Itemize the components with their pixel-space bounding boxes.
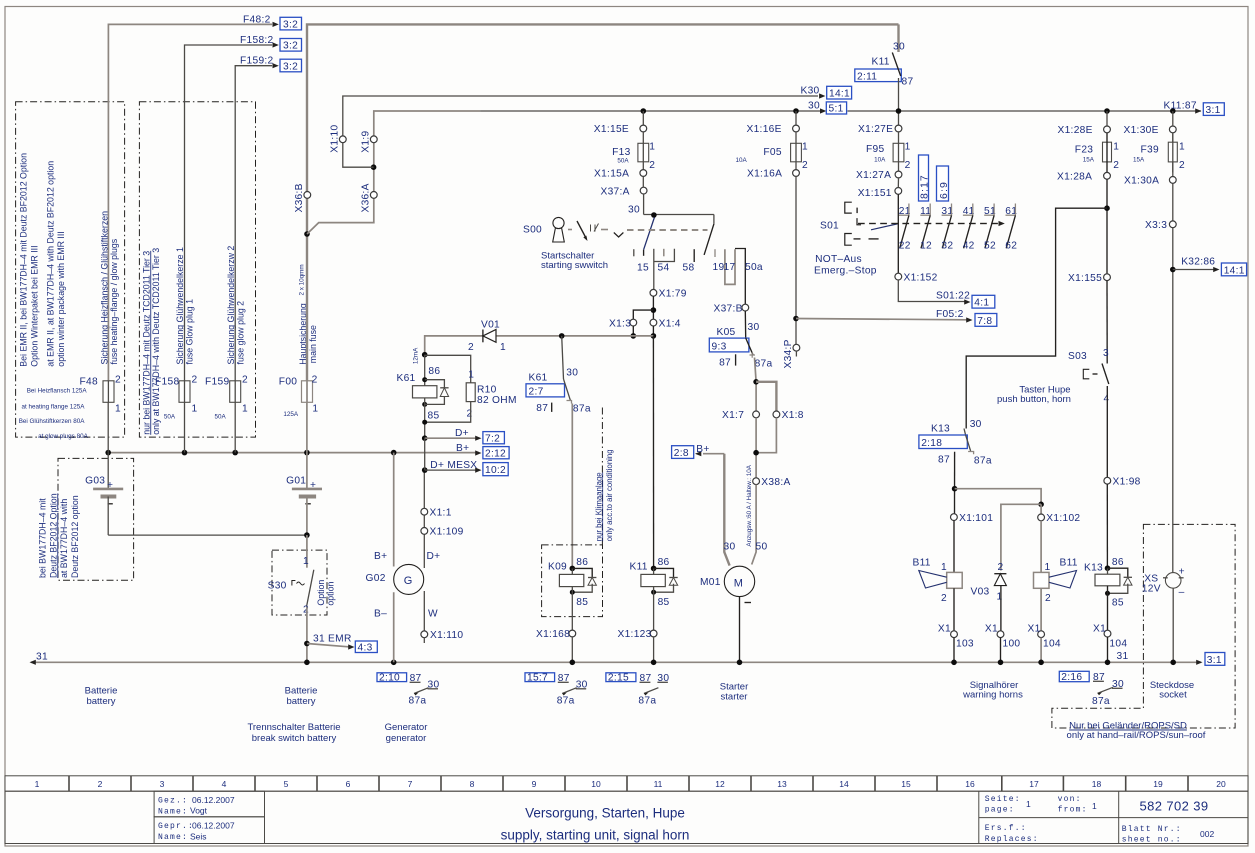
svg-text:X1:79: X1:79 bbox=[659, 289, 687, 300]
connector X1:109 bbox=[421, 527, 464, 538]
S01 contact 41-42 bbox=[963, 204, 975, 252]
label Startschalter bbox=[541, 251, 608, 271]
svg-text:10:2: 10:2 bbox=[485, 465, 506, 476]
svg-text:K30: K30 bbox=[801, 86, 820, 97]
svg-text:X1:151: X1:151 bbox=[858, 188, 892, 199]
svg-text:K13: K13 bbox=[931, 423, 950, 434]
svg-text:B11: B11 bbox=[913, 558, 931, 569]
svg-text:only at BW177DH–4 with Deutz T: only at BW177DH–4 with Deutz TCD2011 Tie… bbox=[151, 248, 161, 435]
generator G02 bbox=[366, 453, 441, 663]
wire B+ 2:8 to starter 30 bbox=[695, 444, 735, 566]
sheet ref box 7:8 bbox=[975, 314, 997, 327]
svg-text:X1:27E: X1:27E bbox=[858, 124, 893, 135]
svg-text:Ers.f.:: Ers.f.: bbox=[985, 824, 1027, 833]
connector X1:28E bbox=[1058, 125, 1111, 136]
svg-text:1: 1 bbox=[1179, 142, 1185, 153]
svg-text:page:: page: bbox=[985, 805, 1015, 814]
svg-text:11: 11 bbox=[654, 779, 663, 789]
wire K13 87 to horns bbox=[952, 452, 1044, 571]
wire D+ to 7:2 bbox=[422, 428, 482, 441]
svg-text:X1:15A: X1:15A bbox=[594, 169, 629, 180]
svg-text:5: 5 bbox=[284, 779, 289, 789]
svg-text:X1: X1 bbox=[1093, 624, 1106, 635]
emergency stop switch S01 bbox=[820, 194, 1005, 276]
relay contact K05 9:3 bbox=[709, 311, 772, 369]
svg-text:1: 1 bbox=[242, 404, 248, 415]
svg-text:13: 13 bbox=[777, 779, 787, 789]
svg-text:1: 1 bbox=[649, 142, 655, 153]
svg-text:2: 2 bbox=[467, 409, 473, 420]
option note air conditioning bbox=[594, 408, 614, 545]
connector X1:27E bbox=[858, 124, 902, 135]
svg-text:K11:87: K11:87 bbox=[1164, 101, 1197, 112]
svg-text:3:2: 3:2 bbox=[283, 41, 298, 52]
key symbol S00 bbox=[523, 217, 708, 242]
svg-text:30: 30 bbox=[566, 367, 578, 378]
svg-text:battery: battery bbox=[286, 696, 315, 707]
svg-text:M: M bbox=[734, 578, 743, 590]
svg-text:2:12: 2:12 bbox=[485, 449, 506, 460]
svg-text:3:2: 3:2 bbox=[283, 20, 298, 31]
svg-text:Name:: Name: bbox=[158, 807, 188, 816]
switch S30 break switch bbox=[268, 535, 314, 662]
svg-text:F95: F95 bbox=[866, 144, 884, 155]
svg-text:X1:30A: X1:30A bbox=[1124, 176, 1159, 187]
svg-text:87: 87 bbox=[938, 454, 950, 465]
wire K61 87a down to K09 bbox=[571, 404, 573, 569]
svg-text:1: 1 bbox=[35, 779, 40, 789]
connector X1:152 bbox=[895, 272, 938, 283]
svg-text:12mA: 12mA bbox=[413, 347, 420, 364]
option box EMR winter package bbox=[16, 102, 125, 440]
svg-text:06.12.2007: 06.12.2007 bbox=[192, 820, 235, 830]
wire S01:22 to 4:1 bbox=[898, 280, 970, 305]
svg-text:Emerg.–Stop: Emerg.–Stop bbox=[814, 266, 877, 277]
connector X1:1 bbox=[421, 507, 452, 518]
svg-text:54: 54 bbox=[658, 263, 670, 274]
svg-text:+: + bbox=[310, 480, 316, 491]
fuse F48 bbox=[80, 375, 122, 415]
svg-text:17: 17 bbox=[724, 262, 736, 273]
wire bus 30 (y=111) to 5:1 and right bbox=[480, 101, 1201, 114]
connector X1:16A bbox=[747, 169, 799, 180]
connector X1:110 bbox=[421, 630, 463, 643]
svg-text:125A: 125A bbox=[283, 411, 299, 418]
svg-text:K09: K09 bbox=[548, 562, 567, 573]
wire X1:4 down to K11 bbox=[652, 336, 654, 569]
svg-text:3:2: 3:2 bbox=[283, 61, 298, 72]
svg-text:F23: F23 bbox=[1075, 145, 1093, 156]
svg-text:Deutz BF2012 Option: Deutz BF2012 Option bbox=[48, 493, 58, 578]
wire F159:2 bbox=[235, 63, 279, 381]
connector X1:30A bbox=[1124, 176, 1176, 187]
svg-text:warning horns: warning horns bbox=[962, 689, 1023, 700]
connector X1:104 right bbox=[1093, 624, 1127, 666]
svg-text:NOT–Aus: NOT–Aus bbox=[815, 254, 862, 265]
svg-text:X1:27A: X1:27A bbox=[856, 170, 891, 181]
wire F48:2 bbox=[108, 22, 278, 381]
connector X34:P bbox=[783, 339, 800, 368]
svg-text:Versorgung, Starten, Hupe: Versorgung, Starten, Hupe bbox=[525, 806, 685, 821]
relay coil K13 bbox=[1084, 557, 1132, 630]
label NOT-Aus bbox=[814, 254, 877, 277]
svg-text:62: 62 bbox=[1005, 240, 1017, 251]
svg-text:6:9: 6:9 bbox=[938, 181, 950, 199]
svg-text:15: 15 bbox=[637, 263, 649, 274]
svg-text:87a: 87a bbox=[557, 696, 575, 707]
wire B+ to 2:12 bbox=[456, 443, 482, 456]
sheet ref box 3:2 (F158) bbox=[280, 39, 302, 52]
svg-text:3: 3 bbox=[1103, 348, 1109, 359]
svg-text:B+: B+ bbox=[374, 551, 387, 562]
svg-text:1: 1 bbox=[468, 370, 474, 381]
sheet ref box 5:1 bbox=[826, 102, 846, 115]
svg-text:fuse glow plug 2: fuse glow plug 2 bbox=[235, 301, 245, 365]
wire starter 50 path bbox=[753, 418, 776, 478]
svg-text:06.12.2007: 06.12.2007 bbox=[192, 795, 235, 805]
svg-text:–: – bbox=[1179, 587, 1185, 598]
svg-text:2: 2 bbox=[242, 375, 248, 386]
svg-text:2: 2 bbox=[802, 160, 808, 171]
svg-text:3: 3 bbox=[160, 779, 165, 789]
wire K30 (y=96) to 14:1 bbox=[801, 86, 826, 99]
svg-text:Sicherung Glühwendelkerze 1: Sicherung Glühwendelkerze 1 bbox=[175, 247, 185, 364]
svg-text:K13: K13 bbox=[1084, 563, 1103, 574]
svg-text:nur bei Klimaanlage: nur bei Klimaanlage bbox=[594, 472, 603, 541]
svg-text:15A: 15A bbox=[1133, 157, 1145, 164]
svg-text:17: 17 bbox=[1029, 779, 1039, 789]
svg-text:K32:86: K32:86 bbox=[1181, 257, 1215, 268]
diode V03 bbox=[971, 562, 1007, 631]
relay coil K11 bbox=[630, 557, 678, 630]
svg-text:option: option bbox=[326, 582, 336, 606]
svg-text:86: 86 bbox=[658, 557, 670, 568]
svg-text:19: 19 bbox=[1153, 779, 1163, 789]
svg-text:3:1: 3:1 bbox=[1206, 105, 1221, 116]
wire D+ MESX to 10:2 bbox=[422, 438, 482, 473]
svg-text:1: 1 bbox=[802, 142, 808, 153]
connector X1:151 bbox=[858, 178, 902, 199]
wire K05 87a to X1:7 X1:8 bbox=[753, 358, 776, 411]
connector X36:B bbox=[294, 183, 311, 212]
svg-text:82 OHM: 82 OHM bbox=[477, 395, 517, 406]
svg-text:Gepr.:: Gepr.: bbox=[158, 822, 194, 831]
svg-text:50: 50 bbox=[756, 542, 768, 553]
svg-text:3:1: 3:1 bbox=[1207, 655, 1222, 666]
relay contact map 15:7 bbox=[525, 673, 588, 707]
svg-text:87a: 87a bbox=[573, 404, 591, 415]
svg-text:4: 4 bbox=[1104, 394, 1110, 405]
svg-text:X1: X1 bbox=[985, 624, 998, 635]
svg-text:X1:4: X1:4 bbox=[659, 318, 681, 329]
svg-text:X1:9: X1:9 bbox=[361, 131, 372, 153]
svg-text:fuse heating–flange / glow plu: fuse heating–flange / glow plugs bbox=[109, 238, 119, 364]
svg-text:S00: S00 bbox=[523, 224, 542, 235]
option box G03 bbox=[38, 458, 134, 580]
title block bbox=[5, 791, 1248, 844]
svg-text:2: 2 bbox=[1045, 593, 1051, 604]
svg-text:K05: K05 bbox=[717, 327, 736, 338]
svg-text:85: 85 bbox=[658, 597, 670, 608]
svg-text:2:11: 2:11 bbox=[857, 71, 877, 82]
fuse F95 10A bbox=[866, 132, 911, 171]
svg-text:F00: F00 bbox=[279, 377, 297, 388]
svg-text:2: 2 bbox=[115, 375, 121, 386]
wire V01 line bbox=[425, 333, 654, 355]
fuse F23 15A bbox=[1075, 133, 1120, 173]
svg-text:F159:2: F159:2 bbox=[240, 56, 274, 67]
svg-text:X1:7: X1:7 bbox=[722, 410, 744, 421]
S01 contact 31-32 bbox=[941, 204, 953, 252]
svg-text:4:1: 4:1 bbox=[974, 298, 989, 309]
svg-text:Batterie: Batterie bbox=[285, 686, 318, 697]
svg-text:8: 8 bbox=[470, 779, 475, 789]
svg-text:1: 1 bbox=[115, 404, 121, 415]
svg-text:1: 1 bbox=[1113, 142, 1119, 153]
svg-text:2: 2 bbox=[312, 375, 318, 386]
connector X1:15E bbox=[594, 124, 647, 135]
wire bus30 to 3:1 top right bbox=[1164, 101, 1202, 114]
svg-text:32: 32 bbox=[941, 240, 953, 251]
svg-text:X3:3: X3:3 bbox=[1145, 220, 1167, 231]
svg-text:Name:: Name: bbox=[158, 833, 188, 842]
label battery mid bbox=[285, 686, 318, 708]
svg-text:002: 002 bbox=[1200, 829, 1214, 839]
svg-text:87a: 87a bbox=[974, 455, 992, 466]
connector X1:79 bbox=[650, 262, 687, 300]
svg-text:50A: 50A bbox=[617, 158, 629, 165]
connector X1:28A bbox=[1057, 172, 1110, 183]
wire K32:86 to 14:1 bbox=[1170, 133, 1220, 573]
svg-text:socket: socket bbox=[1159, 689, 1187, 700]
svg-text:87a: 87a bbox=[409, 696, 427, 707]
svg-text:X34:P: X34:P bbox=[783, 339, 794, 368]
svg-text:15: 15 bbox=[901, 779, 911, 789]
svg-text:9:3: 9:3 bbox=[712, 341, 727, 352]
sheet ref box 10:2 bbox=[483, 463, 508, 476]
svg-text:2:16: 2:16 bbox=[1061, 672, 1082, 683]
svg-text:at glow plugs 80A: at glow plugs 80A bbox=[38, 433, 89, 440]
svg-text:starting swwitch: starting swwitch bbox=[541, 260, 608, 271]
sheet ref box 4:1 bbox=[972, 295, 995, 308]
connector X38:A bbox=[746, 464, 791, 564]
svg-text:X1:16A: X1:16A bbox=[747, 169, 782, 180]
svg-text:starter: starter bbox=[721, 692, 748, 703]
push button S03 horn bbox=[1068, 281, 1110, 478]
svg-text:X36:B: X36:B bbox=[294, 183, 305, 212]
svg-text:B+: B+ bbox=[696, 444, 709, 455]
svg-text:F159: F159 bbox=[205, 377, 229, 388]
svg-text:X1: X1 bbox=[1028, 624, 1041, 635]
svg-text:F05: F05 bbox=[763, 147, 781, 158]
svg-text:8:17: 8:17 bbox=[918, 174, 930, 199]
svg-text:Trennschalter Batterie: Trennschalter Batterie bbox=[247, 722, 340, 733]
svg-text:104: 104 bbox=[1043, 639, 1061, 650]
svg-text:Bei Glühstiftkerzen 80A: Bei Glühstiftkerzen 80A bbox=[19, 418, 86, 425]
svg-text:2:15: 2:15 bbox=[608, 673, 629, 684]
svg-text:87: 87 bbox=[719, 358, 731, 369]
svg-text:30: 30 bbox=[970, 419, 982, 430]
diode V01 bbox=[468, 320, 506, 354]
svg-text:7:8: 7:8 bbox=[977, 316, 992, 327]
svg-text:6: 6 bbox=[346, 779, 351, 789]
svg-text:F05:2: F05:2 bbox=[936, 309, 964, 320]
wire 31 EMR to 4:3 bbox=[304, 634, 354, 650]
svg-text:at BW177DH–4 with: at BW177DH–4 with bbox=[59, 499, 69, 578]
connector X1:4 bbox=[650, 318, 681, 338]
svg-text:X38:A: X38:A bbox=[761, 477, 790, 488]
svg-text:5:1: 5:1 bbox=[829, 104, 844, 115]
svg-text:X1:102: X1:102 bbox=[1046, 513, 1080, 524]
svg-text:B11: B11 bbox=[1060, 558, 1078, 569]
svg-text:1: 1 bbox=[1045, 562, 1051, 573]
svg-text:X1:155: X1:155 bbox=[1068, 273, 1102, 284]
svg-text:52: 52 bbox=[984, 240, 996, 251]
wire bus30 drop to F23 bbox=[1104, 108, 1110, 126]
svg-text:X1:28E: X1:28E bbox=[1058, 125, 1093, 136]
svg-text:4:3: 4:3 bbox=[358, 643, 373, 654]
S01 contact 51-52 bbox=[984, 204, 996, 252]
svg-text:4: 4 bbox=[222, 779, 227, 789]
wire bus30 drop to F05 bbox=[793, 108, 799, 125]
svg-text:X1:123: X1:123 bbox=[618, 629, 652, 640]
wire main bus y=452.6 bbox=[105, 402, 478, 455]
relay coil K09 bbox=[548, 557, 596, 630]
option box Deutz TCD2011 bbox=[139, 102, 255, 437]
svg-text:2: 2 bbox=[941, 593, 947, 604]
svg-text:X1:168: X1:168 bbox=[536, 629, 570, 640]
svg-text:at heating flange 125A: at heating flange 125A bbox=[21, 404, 85, 411]
connector X1:8 bbox=[773, 410, 804, 421]
svg-text:1: 1 bbox=[1092, 801, 1097, 811]
sheet ref box 3:1 top bbox=[1203, 103, 1224, 116]
svg-text:X1:15E: X1:15E bbox=[594, 124, 629, 135]
svg-text:30: 30 bbox=[893, 42, 905, 53]
svg-text:14:1: 14:1 bbox=[1224, 265, 1245, 276]
svg-text:2:10: 2:10 bbox=[379, 673, 400, 684]
svg-text:2: 2 bbox=[98, 779, 103, 789]
svg-text:1: 1 bbox=[192, 404, 198, 415]
horn B11 right bbox=[1034, 558, 1078, 631]
svg-text:K61: K61 bbox=[397, 373, 416, 384]
svg-text:from:: from: bbox=[1058, 805, 1088, 814]
svg-text:D+ MESX: D+ MESX bbox=[430, 460, 477, 471]
svg-text:1: 1 bbox=[1026, 799, 1031, 809]
svg-text:12: 12 bbox=[920, 240, 932, 251]
connector X1:10 bbox=[330, 125, 347, 153]
svg-text:F48:2: F48:2 bbox=[243, 15, 271, 26]
svg-text:F158: F158 bbox=[155, 377, 179, 388]
svg-text:Bei EMR II, bei BW177DH–4 mit: Bei EMR II, bei BW177DH–4 mit Deutz BF20… bbox=[19, 153, 29, 367]
svg-text:push button, horn: push button, horn bbox=[997, 394, 1071, 405]
wire X1:3 X1:4 split bbox=[633, 296, 656, 319]
svg-text:22: 22 bbox=[899, 240, 911, 251]
svg-text:von:: von: bbox=[1058, 795, 1082, 804]
svg-text:Generator: Generator bbox=[385, 722, 428, 733]
svg-text:87a: 87a bbox=[638, 696, 656, 707]
svg-text:582 702 39: 582 702 39 bbox=[1139, 799, 1208, 814]
fuse F13 30A bbox=[612, 132, 655, 171]
svg-text:R10: R10 bbox=[477, 385, 497, 396]
svg-text:option winter package with EMR: option winter package with EMR III bbox=[56, 231, 66, 366]
svg-text:only acc.to air conditioning: only acc.to air conditioning bbox=[605, 449, 614, 541]
label break switch battery bbox=[247, 722, 340, 744]
svg-text:S30: S30 bbox=[268, 580, 287, 591]
svg-text:12V: 12V bbox=[1142, 584, 1161, 595]
svg-text:18: 18 bbox=[1092, 779, 1102, 789]
wire F05:2 down to 7:8 bbox=[793, 176, 972, 347]
svg-text:nur bei BW177DH–4 mit Deutz TC: nur bei BW177DH–4 mit Deutz TCD2011 Tier… bbox=[141, 251, 151, 435]
svg-text:85: 85 bbox=[576, 597, 588, 608]
horn B11 left bbox=[913, 558, 963, 631]
battery G03 bbox=[85, 453, 123, 535]
svg-text:B+: B+ bbox=[456, 443, 469, 454]
svg-text:1: 1 bbox=[941, 562, 947, 573]
svg-text:Sicherung Glühwendelkerzw 2: Sicherung Glühwendelkerzw 2 bbox=[226, 246, 236, 365]
relay contact K61 2:7 bbox=[526, 336, 591, 415]
svg-text:G01: G01 bbox=[286, 476, 306, 487]
svg-text:86: 86 bbox=[576, 557, 588, 568]
svg-text:30: 30 bbox=[724, 542, 736, 553]
svg-text:fuse Glow plug 1: fuse Glow plug 1 bbox=[185, 299, 195, 365]
svg-text:X1:10: X1:10 bbox=[330, 125, 341, 153]
relay contact map 2:15 bbox=[606, 673, 669, 707]
svg-text:X1:98: X1:98 bbox=[1113, 476, 1141, 487]
svg-text:85: 85 bbox=[428, 411, 440, 422]
svg-text:sheet no.:: sheet no.: bbox=[1122, 835, 1182, 844]
sheet ref box 7:2 bbox=[483, 432, 505, 445]
svg-text:main fuse: main fuse bbox=[308, 325, 318, 363]
wire K11 30 drop bbox=[893, 24, 905, 52]
wire X1:10 branch bbox=[343, 96, 818, 170]
wire bus30 drop to F13 bbox=[641, 108, 647, 125]
svg-text:K61: K61 bbox=[529, 373, 548, 384]
svg-text:X1:3: X1:3 bbox=[609, 318, 631, 329]
connector X1:123 bbox=[618, 629, 657, 665]
connector X37:A bbox=[601, 176, 647, 197]
svg-text:V01: V01 bbox=[481, 320, 500, 331]
svg-text:F13: F13 bbox=[612, 147, 630, 158]
label starter bbox=[720, 682, 749, 703]
svg-text:104: 104 bbox=[1109, 639, 1127, 650]
svg-text:K11: K11 bbox=[630, 562, 648, 573]
svg-text:10A: 10A bbox=[736, 157, 748, 164]
connector X1:7 bbox=[722, 410, 759, 421]
wire F23 down + branch to horn button net bbox=[966, 179, 1110, 428]
relay contact K13 2:18 bbox=[919, 419, 992, 466]
svg-text:D+: D+ bbox=[455, 428, 469, 439]
svg-text:20: 20 bbox=[1216, 779, 1226, 789]
socket XS 12V bbox=[1142, 567, 1185, 666]
svg-text:9: 9 bbox=[532, 779, 537, 789]
svg-text:30: 30 bbox=[748, 322, 760, 333]
svg-text:1: 1 bbox=[303, 556, 309, 567]
svg-text:15A: 15A bbox=[1083, 157, 1095, 164]
svg-text:1: 1 bbox=[312, 404, 318, 415]
svg-text:2: 2 bbox=[1179, 160, 1185, 171]
column ruler strip bbox=[5, 776, 1248, 791]
relay contact map 2:16 bbox=[1059, 671, 1124, 707]
svg-text:M01: M01 bbox=[700, 577, 721, 588]
connector X1:30E bbox=[1124, 111, 1177, 136]
sheet ref box 3:2 (F159) bbox=[280, 59, 302, 72]
svg-text:X1:8: X1:8 bbox=[782, 410, 804, 421]
connector X1:102 bbox=[1038, 513, 1081, 572]
relay coil K61 bbox=[397, 347, 449, 438]
svg-text:only at hand–rail/ROPS/sun–roo: only at hand–rail/ROPS/sun–roof bbox=[1067, 730, 1206, 741]
svg-text:F39: F39 bbox=[1141, 145, 1159, 156]
svg-text:X1:1: X1:1 bbox=[430, 507, 452, 518]
